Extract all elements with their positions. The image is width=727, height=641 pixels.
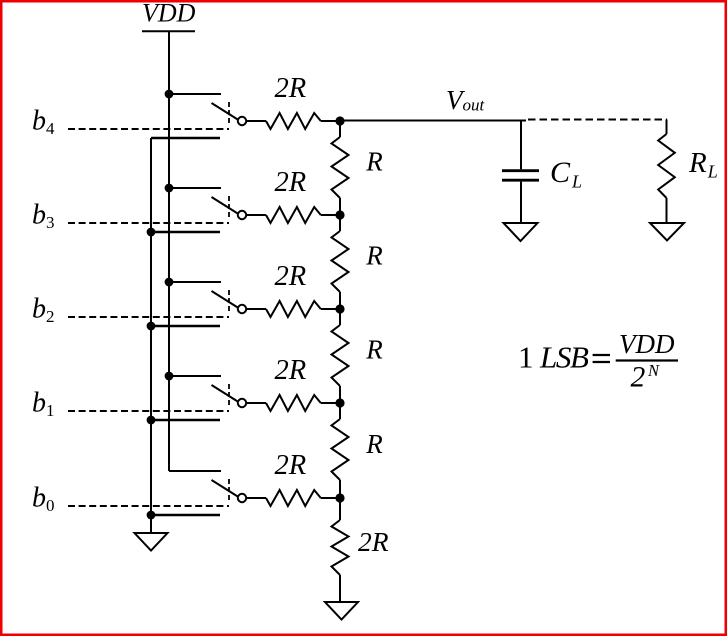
svg-text:2R: 2R xyxy=(275,261,307,292)
svg-text:R: R xyxy=(365,241,383,271)
svg-text:N: N xyxy=(647,361,660,380)
svg-text:R: R xyxy=(365,147,383,177)
svg-text:2R: 2R xyxy=(358,526,389,557)
svg-text:R: R xyxy=(365,335,383,365)
svg-text:LSB: LSB xyxy=(539,340,589,375)
svg-text:R: R xyxy=(365,429,383,459)
svg-text:VDD: VDD xyxy=(619,329,675,359)
svg-text:2: 2 xyxy=(631,362,646,394)
svg-text:2R: 2R xyxy=(275,450,307,481)
svg-text:2R: 2R xyxy=(275,73,307,104)
svg-text:2R: 2R xyxy=(275,167,307,198)
svg-text:2R: 2R xyxy=(275,355,307,386)
svg-text:1: 1 xyxy=(518,340,534,375)
svg-text:VDD: VDD xyxy=(142,0,196,28)
